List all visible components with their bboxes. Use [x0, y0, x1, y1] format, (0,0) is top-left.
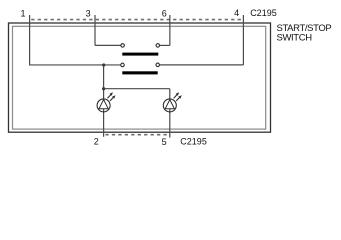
svg-text:SWITCH: SWITCH: [277, 32, 313, 43]
svg-text:C2195: C2195: [180, 136, 207, 146]
svg-text:3: 3: [86, 8, 91, 18]
svg-text:6: 6: [162, 8, 167, 18]
svg-text:2: 2: [94, 137, 99, 147]
svg-text:5: 5: [162, 137, 167, 147]
svg-text:1: 1: [20, 8, 25, 18]
svg-text:C2195: C2195: [250, 8, 277, 18]
svg-text:4: 4: [234, 8, 239, 18]
